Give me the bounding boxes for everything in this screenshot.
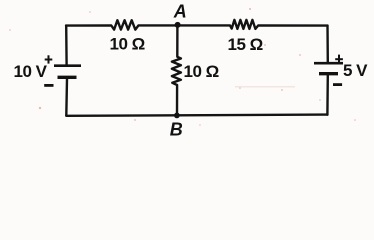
svg-text:B: B xyxy=(170,119,183,138)
svg-text:5 V: 5 V xyxy=(343,61,368,80)
svg-text:15 Ω: 15 Ω xyxy=(228,35,263,54)
svg-text:10 Ω: 10 Ω xyxy=(184,62,219,81)
svg-text:10 V: 10 V xyxy=(14,62,48,81)
svg-text:10 Ω: 10 Ω xyxy=(110,35,145,54)
svg-text:A: A xyxy=(173,1,187,21)
